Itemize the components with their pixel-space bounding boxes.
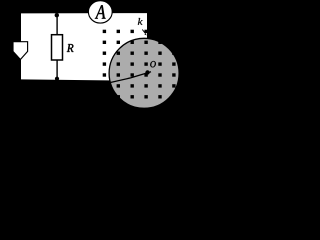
wire top segment (along top edge of white area, merged with background) [21, 12, 147, 14]
label A [95, 5, 106, 18]
radius conductor wire from rim contact to centre [110, 72, 151, 83]
circuit loop interior (white area; outer loop wires lie on its boundary) [21, 13, 147, 81]
magnetic field dots (B out of page region) [103, 30, 176, 99]
label R [67, 44, 74, 52]
wire (resistor branch, lower) [56, 60, 58, 80]
wire bottom segment (along bottom edge of white area) [21, 78, 147, 80]
pointer arrow from label k to disc rim [142, 30, 145, 33]
label O [150, 61, 156, 67]
conducting disc (Faraday disc) [109, 38, 179, 108]
ammeter A1 (circle) [88, 1, 112, 23]
wire (resistor branch, upper) [56, 13, 58, 35]
component X1 (pentagon-shaped element in left branch) [13, 42, 28, 60]
label k (rim brush / switch) [138, 18, 143, 25]
node O (centre brush dot) [145, 70, 149, 74]
resistor R [52, 35, 63, 60]
node junction (top of resistor branch) [55, 13, 59, 17]
node junction (bottom of resistor branch) [55, 77, 59, 81]
wire left segment (along left edge of white area) [20, 13, 22, 79]
wire right segment (down to disc rim brush) [146, 13, 148, 37]
